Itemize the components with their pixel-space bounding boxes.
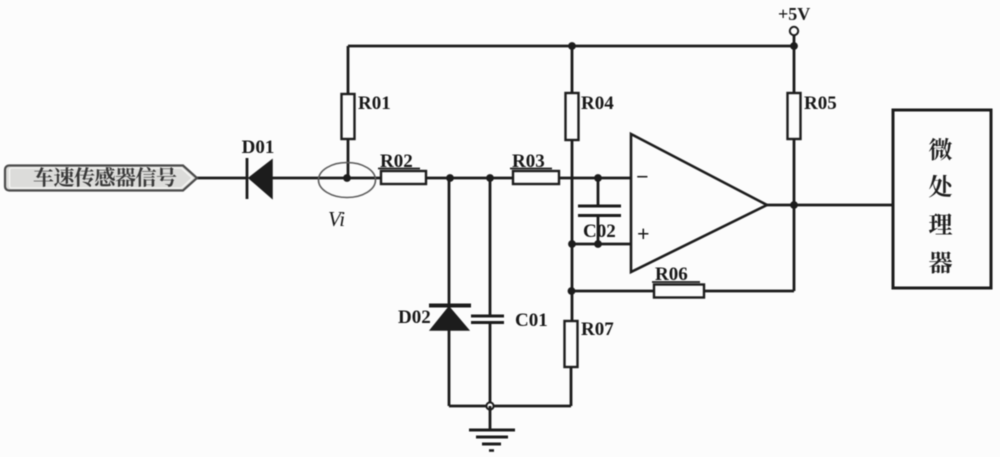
svg-text:D01: D01 — [242, 137, 275, 158]
wire D01 to node Vi — [272, 177, 381, 180]
wire C01 top lead — [489, 178, 492, 316]
capacitor C01 top plate — [471, 315, 504, 318]
wire R05 top lead — [793, 46, 796, 93]
junction dot C02 top tap — [594, 174, 602, 182]
ground bar 4 — [489, 449, 494, 452]
svg-text:D02: D02 — [398, 307, 431, 328]
+5V terminal circle — [790, 27, 798, 35]
wire R06 to R04 column — [571, 290, 654, 293]
junction dot +5V at top rail — [790, 42, 798, 50]
banner text 车速传感器信号 — [34, 167, 177, 187]
wire feedback vertical from output node — [793, 205, 796, 291]
wire R04 top lead — [571, 46, 574, 93]
label R06 underline — [652, 281, 700, 283]
junction dot at ground bus — [486, 402, 493, 409]
resistor R02 body — [381, 171, 426, 184]
microprocessor text 微处理器 — [929, 138, 952, 274]
junction dot output node — [790, 201, 798, 209]
resistor R03 body — [513, 171, 559, 184]
ground bar 3 — [482, 443, 501, 446]
wire op-amp output — [767, 204, 893, 207]
junction dot feedback at R04 column — [568, 287, 576, 295]
wire D02 bottom lead — [448, 330, 451, 406]
junction dot C01 tap — [486, 174, 494, 182]
resistor R06 body — [654, 285, 704, 298]
wire C02 bottom lead — [597, 216, 600, 245]
junction dot D02 tap — [446, 174, 454, 182]
ground bar 2 — [476, 436, 508, 439]
resistor R07 body — [565, 321, 578, 367]
svg-text:C01: C01 — [515, 310, 548, 331]
diode D02 triangle — [431, 307, 469, 330]
svg-text:C02: C02 — [583, 221, 616, 242]
ground stub — [489, 406, 492, 429]
capacitor C01 bottom plate — [471, 321, 504, 324]
wire bottom ground bus — [449, 405, 571, 408]
resistor R05 body — [788, 93, 801, 139]
wire C02 top lead — [597, 178, 600, 206]
junction dot R04 column at plus input — [568, 240, 576, 248]
wire banner tip to diode D01 — [196, 177, 247, 180]
diode D02 cathode bar — [429, 304, 471, 308]
wire top rail from R01 to +5V node — [348, 45, 794, 48]
wire D02 top lead from signal wire — [448, 178, 451, 305]
node Vi ellipse — [319, 163, 376, 198]
wire R03 to op-amp inverting input — [559, 177, 631, 180]
input banner 车速传感器信号 — [5, 166, 197, 191]
svg-text:−: − — [636, 164, 649, 189]
capacitor C02 bottom plate — [578, 214, 621, 217]
junction dot R04 at top rail — [568, 42, 576, 50]
resistor R01 body — [342, 94, 355, 139]
svg-text:+5V: +5V — [778, 4, 810, 24]
wire +5V stub — [793, 35, 796, 46]
label R03 underline — [510, 168, 552, 170]
label R02 underline — [378, 168, 420, 170]
svg-text:R03: R03 — [512, 151, 545, 172]
junction dot C02 bottom tap — [594, 240, 602, 248]
wire R05 bottom lead to output node — [793, 139, 796, 205]
svg-text:+: + — [637, 221, 650, 246]
microprocessor box — [893, 110, 991, 288]
wire non-inverting input from R04 column — [572, 243, 631, 246]
wire C01 bottom lead — [489, 323, 492, 407]
svg-text:R02: R02 — [380, 151, 413, 172]
wire R01 top lead — [347, 46, 350, 94]
capacitor C02 top plate — [578, 205, 621, 208]
svg-text:R06: R06 — [655, 264, 688, 285]
wire R07 bottom lead — [570, 367, 573, 406]
diode D01 cathode bar — [246, 158, 249, 199]
junction dot at node Vi — [343, 174, 351, 182]
svg-text:R04: R04 — [581, 93, 614, 114]
resistor R04 body — [566, 93, 579, 140]
wire feedback left segment to R06 — [704, 290, 794, 293]
svg-text:R07: R07 — [581, 319, 614, 340]
wire R02 to R03 — [426, 177, 513, 180]
diode D01 triangle — [249, 160, 272, 198]
wire R01 bottom lead to node Vi — [347, 139, 350, 178]
ground bar 1 — [469, 429, 515, 432]
svg-text:R05: R05 — [804, 93, 837, 114]
svg-text:R01: R01 — [358, 93, 391, 114]
wire R04 bottom lead down through crossing to R07 — [571, 140, 574, 321]
op-amp U1 triangle — [631, 134, 767, 272]
svg-text:Vi: Vi — [328, 207, 345, 231]
